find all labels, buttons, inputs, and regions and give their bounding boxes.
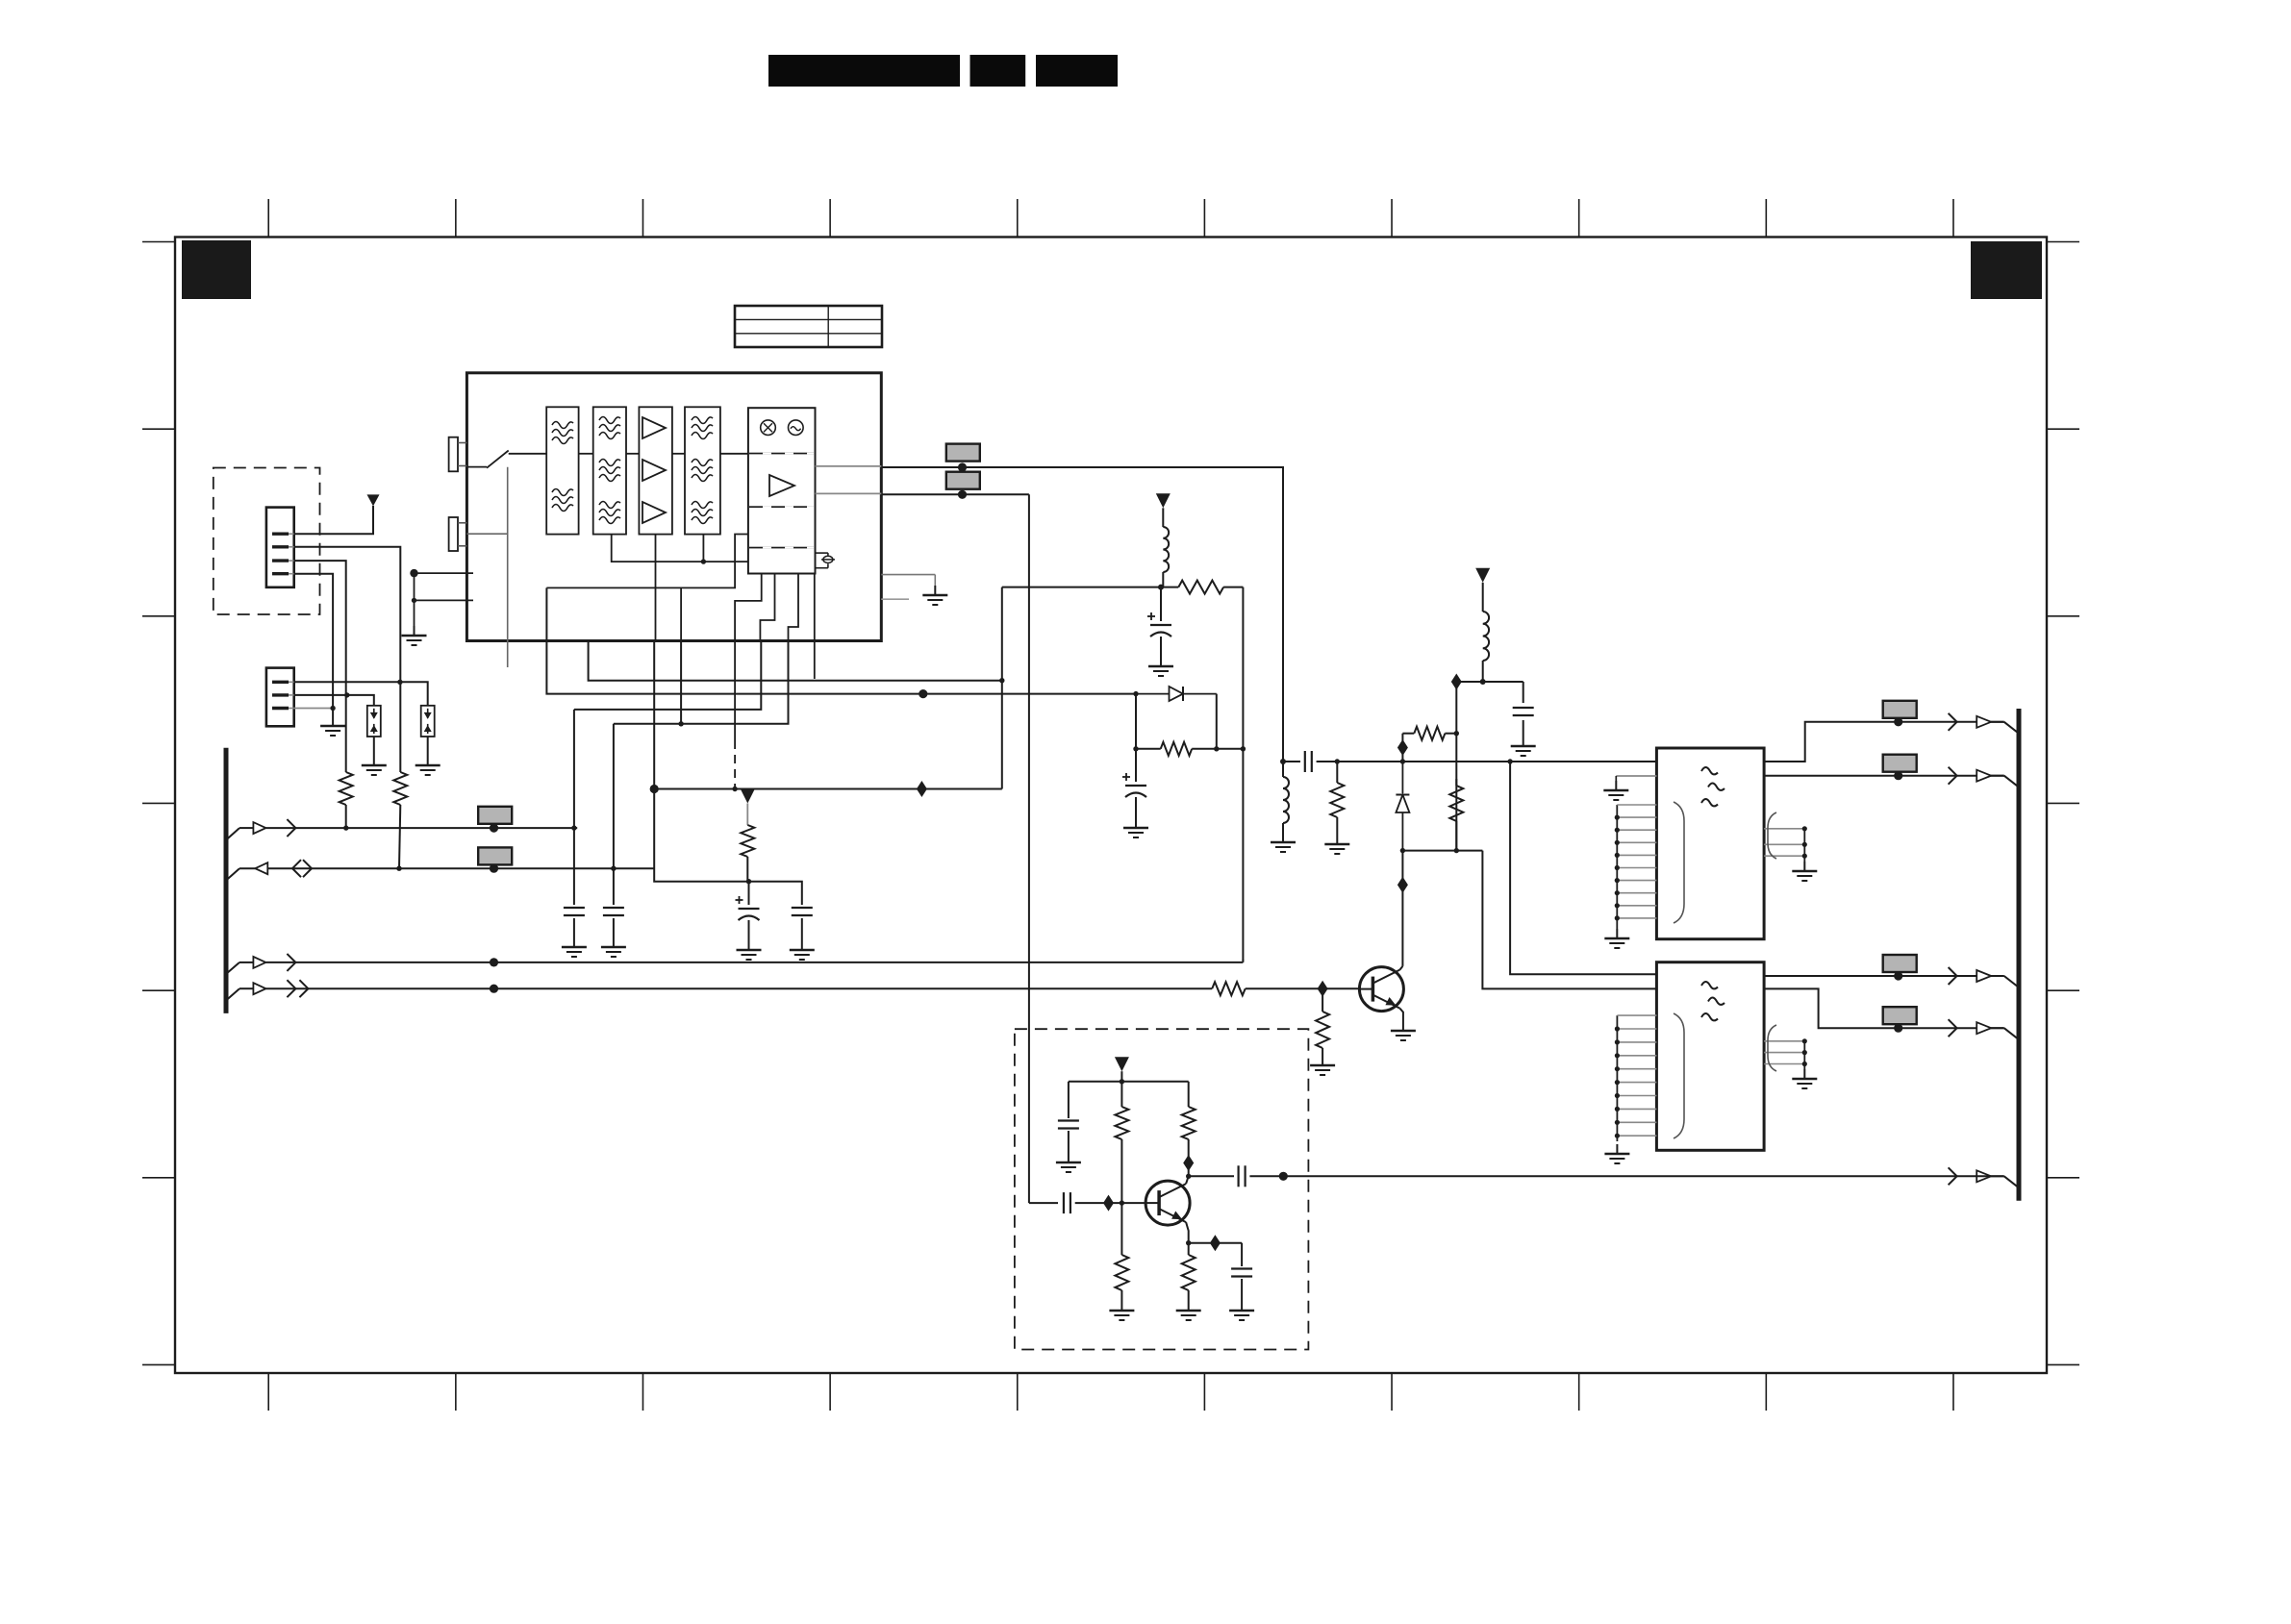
inductor L3 [1283, 762, 1289, 833]
transistor Q2 [1359, 967, 1403, 1012]
stub mixer nc pin [881, 598, 909, 600]
corner marker top-left [182, 240, 251, 299]
wire D1 cathode down [1216, 694, 1218, 749]
resistor R13 [1115, 1203, 1128, 1301]
junction R9 bottom [1454, 848, 1459, 853]
supply arrow V2 [1475, 568, 1490, 583]
wire J2 pin1 [294, 682, 428, 706]
capacitor C10 (series) [1189, 1165, 1284, 1187]
wire Q2 base [1322, 987, 1359, 989]
wire J1 pin2 [294, 547, 401, 772]
junction J2p3 gnd [330, 706, 335, 711]
wire J2 pin3 [294, 708, 333, 710]
resistor R6 [741, 804, 754, 882]
bus bar right [2017, 709, 2022, 1201]
wire IF mid [1337, 761, 1402, 762]
ground C6 [1123, 818, 1148, 837]
wire pin4 lower [654, 789, 748, 882]
net label box N4 [478, 847, 512, 864]
diode D2 [1396, 762, 1409, 851]
wire pin4 down [654, 535, 655, 789]
Z2 grounded pins left [1604, 1015, 1656, 1163]
wire IF into Z1 [1635, 761, 1656, 762]
title bar 2 (redacted text) [970, 55, 1026, 87]
junction AGC big dot [919, 689, 927, 698]
resistor R7 [1136, 742, 1217, 756]
wire R7 to B-node [1217, 748, 1244, 750]
capacitor C7 [1513, 682, 1534, 737]
varistor VR2 [421, 706, 435, 737]
dashed box oscillator [1015, 1029, 1309, 1349]
junction C1 top [571, 825, 576, 830]
SAW filter Z1 [1656, 748, 1764, 939]
wire VR1 gnd [373, 737, 375, 756]
diamond collector [1397, 877, 1408, 893]
title bar 1 (redacted text) [768, 55, 960, 87]
capacitor C1 [564, 828, 585, 937]
ground VR2 [415, 756, 441, 775]
ground C3 [737, 940, 762, 960]
ground VR1 [362, 756, 387, 775]
IC input pad 2 [449, 517, 467, 551]
input switch inside U1 [466, 451, 546, 668]
net label box N2 [946, 472, 980, 489]
dashed box antenna [214, 468, 320, 615]
wire pin6 dashed [732, 641, 737, 792]
reference element X1 on mixer [816, 553, 836, 568]
junction L2 [1480, 679, 1486, 685]
wire C2 net vertical [613, 724, 615, 868]
bus entry out1 / net label [1883, 701, 2019, 734]
wire osc out [1283, 1175, 2003, 1177]
corner marker top-right [1971, 241, 2042, 299]
wire C1 net vertical [573, 710, 575, 828]
ground R10 [1324, 835, 1349, 854]
wire IF out B [881, 493, 1029, 495]
ground R14 [1176, 1301, 1201, 1320]
wire AGC to diode node [923, 693, 1136, 695]
diamond W820 [917, 781, 927, 797]
resistor R1 [340, 772, 353, 828]
ground Z1 pin2 [1603, 776, 1656, 800]
wire V2 node vertical [1455, 682, 1457, 851]
Z2 grounded pins right [1764, 1025, 1817, 1088]
junction big dot w3 [490, 958, 498, 966]
supply arrow V1 [1156, 493, 1171, 508]
wire Z2 out1 [1764, 975, 2004, 977]
Z1 grounded pins left [1604, 805, 1656, 948]
junction osc out big dot [1279, 1172, 1288, 1181]
wire A1-F3 [672, 453, 685, 455]
IC input pad 1 [449, 437, 467, 472]
net label box N3 [478, 807, 512, 824]
bus bar left [224, 748, 229, 1013]
capacitor C12 [1231, 1243, 1252, 1301]
wire SAW2 in2 route [1482, 851, 1656, 989]
diamond R12 [1183, 1155, 1194, 1171]
Z1 grounded pins right [1764, 812, 1817, 881]
junction N3 big dot [490, 824, 498, 833]
capacitor C5 (polarized) [1147, 587, 1171, 657]
junction C2 top [611, 866, 616, 871]
resistor R8 [1402, 727, 1456, 740]
wire Q2 emitter [1399, 1009, 1403, 1021]
wire supply rail W820 [654, 788, 1002, 790]
tuner IC U1 outline [466, 373, 881, 641]
ground R13 [1109, 1301, 1134, 1320]
junction R1 bottom [343, 825, 348, 830]
junction R6 bottom [746, 879, 751, 884]
junction pin3/SIF [999, 678, 1004, 683]
wire B-node vertical [1242, 587, 1244, 961]
amplifier block A1 [639, 407, 672, 534]
resistor R5 [1161, 581, 1243, 594]
diamond W709 [1451, 674, 1462, 690]
ground C1 [562, 937, 587, 957]
resistor R9 vertical [1449, 779, 1463, 851]
wire VR2 gnd [427, 737, 429, 756]
wire J1 pin1 [294, 506, 373, 534]
bus wire 4 (osc control) [226, 980, 1212, 1000]
wire SIF vertical [1001, 587, 1003, 789]
ground C4 [790, 940, 815, 960]
revision table [735, 306, 882, 347]
wire J1 pin3 [294, 561, 346, 772]
bus wire 3 (IF return) [226, 954, 1243, 974]
supply arrow V3 [1115, 1057, 1129, 1071]
diode D1 [1136, 687, 1217, 701]
diamond emitter [1210, 1235, 1221, 1251]
junction emitter [1186, 1240, 1191, 1245]
wire IF out A [881, 467, 1283, 762]
supply arrow V4 [741, 789, 755, 804]
wire F1-F2 [579, 453, 593, 455]
wire Z2 out2 [1764, 988, 2004, 1028]
bus entry out2 / net label [1883, 755, 2019, 787]
ground C9 [1056, 1153, 1081, 1172]
junction V3 [1120, 1079, 1124, 1084]
ground mixer pin [881, 575, 947, 605]
junction IF/SAW2tap [1507, 759, 1512, 763]
filter block F3 [685, 407, 720, 534]
wire collector net [1402, 850, 1482, 852]
capacitor C8 (series) [1283, 751, 1337, 772]
wire Z1 out2 [1764, 775, 2004, 777]
ground C2 [601, 937, 626, 957]
wire J2 pin2 [294, 695, 374, 706]
ground J2 pin3 [320, 709, 345, 737]
junction R7 left [1133, 746, 1138, 751]
resistor R2 [393, 772, 407, 868]
transistor Q1 [1145, 1181, 1190, 1225]
ground IC input [402, 569, 474, 645]
capacitor C9 [1058, 1082, 1079, 1153]
title bar 3 (redacted text) [1036, 55, 1118, 87]
wire Q1 emitter [1186, 1222, 1189, 1243]
wire emitter to C12 [1189, 1242, 1242, 1244]
junction J2p1/J1p2 [397, 680, 402, 685]
diamond Q2 base [1318, 981, 1328, 997]
wire to C4 [749, 882, 802, 905]
wire F3-mixer [720, 453, 748, 455]
junction base/R11 [1120, 1200, 1124, 1205]
junction N4 big dot [490, 864, 498, 873]
wire W610 [1002, 587, 1161, 588]
ground L3 [1271, 833, 1296, 852]
mixer bottom pin wires [735, 574, 815, 641]
mixer divider dashes [749, 454, 814, 548]
ground C7 [1511, 737, 1536, 756]
wire pin8 [614, 641, 789, 724]
wire collector down [1401, 851, 1403, 966]
junction D1 anode [1133, 691, 1138, 696]
wire w3 corner up [1242, 960, 1244, 962]
junction R2 bottom [396, 866, 401, 871]
bus entry out4 / net label [1883, 1007, 2019, 1039]
capacitor C6 (polarized) [1122, 749, 1146, 818]
varistor VR1 [367, 706, 381, 737]
bus entry osc out [1949, 1167, 2019, 1187]
wire mixer-edge B [816, 492, 882, 494]
diamond IF tap [1397, 739, 1408, 756]
bus wire 1 (tuning) [226, 819, 577, 840]
antenna symbol [367, 494, 380, 506]
junction supply net big dot [650, 785, 659, 793]
junction D2 bottom [1400, 848, 1405, 853]
wire J1 pin4 [294, 574, 333, 709]
inductor L1 [1163, 508, 1169, 587]
connector J1 [266, 508, 294, 587]
resistor R10 [1330, 762, 1344, 835]
bus wire 2 (AGC ext) [226, 860, 654, 880]
grid tick marks [142, 199, 2079, 1411]
junction N1 [958, 462, 967, 471]
capacitor C11 (series, base) [1029, 1192, 1109, 1213]
junction N2 [958, 490, 967, 499]
wire LO vertical [1028, 494, 1030, 1203]
junction R8 right [1454, 731, 1459, 736]
wire F2/F3 bottom to mixer [612, 535, 748, 564]
wire Q1 collector [1186, 1176, 1189, 1184]
wire V3 down [1120, 1071, 1122, 1082]
SAW filter Z2 [1656, 962, 1764, 1151]
wire IC input net [415, 572, 474, 574]
resistor R16 [1316, 988, 1329, 1056]
resistor R12 [1182, 1082, 1196, 1177]
wire SAW2 in1 route [1510, 762, 1656, 974]
capacitor C4 [792, 908, 813, 940]
ground Q2 emitter [1391, 1021, 1416, 1040]
pin stub 9 [814, 641, 816, 680]
ground C5 [1148, 657, 1173, 676]
junction pin5 [678, 721, 683, 726]
wire osc supply rail [1069, 1081, 1189, 1083]
junction R7 right [1214, 746, 1219, 751]
wire Q2 collector [1399, 966, 1402, 970]
wire pin7 [574, 641, 761, 710]
junction big dot w4 [490, 985, 498, 993]
junction IF/L3 [1280, 759, 1286, 764]
wire pin3 right [589, 641, 1002, 681]
capacitor C2 [603, 868, 624, 937]
junction L1/C5 [1158, 585, 1164, 590]
wire W709 [1456, 681, 1523, 683]
wire base [1109, 1202, 1146, 1204]
connector J2 [266, 668, 294, 727]
junction J2p2/J1p3 [344, 692, 349, 697]
wire mixer-edge A [816, 465, 882, 467]
ground C12 [1229, 1301, 1254, 1320]
wire Z1 out1 [1764, 722, 2004, 762]
mixer/oscillator block U1b [748, 408, 816, 573]
filter block F2 [593, 407, 626, 534]
ground R16 [1310, 1056, 1335, 1075]
diamond base [1103, 1195, 1114, 1212]
wire R8 stub [1401, 734, 1403, 762]
junction B-node [1241, 746, 1246, 751]
junction IF/R10 [1335, 759, 1340, 763]
resistor R15 [1212, 982, 1322, 995]
capacitor C3 (polarized) [736, 882, 760, 940]
wire pin5 down [680, 641, 682, 724]
wire F2-A1 [626, 453, 639, 455]
net label box N1 [946, 444, 980, 462]
border frame [175, 237, 2047, 1374]
wire D1 anode down [1135, 694, 1137, 749]
wire pin2 to AGC line [546, 535, 922, 694]
resistor R14 [1182, 1243, 1196, 1301]
inductor L2 [1483, 583, 1489, 682]
bus entry out3 / net label [1883, 955, 2019, 987]
wire IF right [1402, 761, 1656, 762]
junction IF/D2 [1400, 759, 1405, 763]
filter block F1 [546, 407, 578, 534]
resistor R11 [1115, 1082, 1128, 1203]
junction Q1 collector [1186, 1174, 1191, 1179]
